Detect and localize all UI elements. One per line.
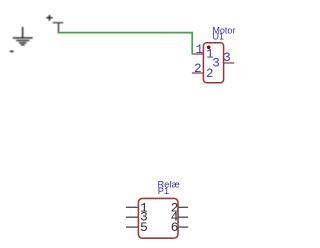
motor pin 1 dot — [207, 46, 211, 50]
relay pin 5 stub (left) — [126, 226, 139, 228]
motor pin 3 stub — [223, 62, 234, 64]
svg-text:6: 6 — [171, 220, 179, 235]
relay pin 3 stub (left) — [126, 216, 139, 218]
wire from battery + to motor pin 1 — [58, 33, 192, 54]
relay pin 6 stub (right) — [178, 226, 188, 228]
svg-text:1: 1 — [196, 43, 204, 57]
svg-text:2: 2 — [206, 67, 214, 81]
relay pin 4 stub (right) — [178, 216, 188, 218]
motor U1 box — [203, 43, 223, 83]
relay P1 box — [138, 198, 178, 238]
motor pin 2 stub — [192, 72, 204, 74]
battery positive label + — [46, 15, 53, 21]
ground — [13, 27, 33, 46]
svg-text:U1: U1 — [213, 31, 225, 41]
svg-text:2: 2 — [194, 62, 202, 76]
relay pin 2 stub (right) — [178, 206, 188, 208]
relay pin 1 stub (left) — [126, 206, 139, 208]
battery negative label - — [10, 51, 14, 53]
svg-text:3: 3 — [223, 51, 231, 65]
svg-text:5: 5 — [140, 220, 148, 235]
motor pin 1 stub — [192, 53, 204, 55]
battery positive terminal — [53, 22, 64, 33]
svg-text:P1: P1 — [158, 186, 169, 196]
